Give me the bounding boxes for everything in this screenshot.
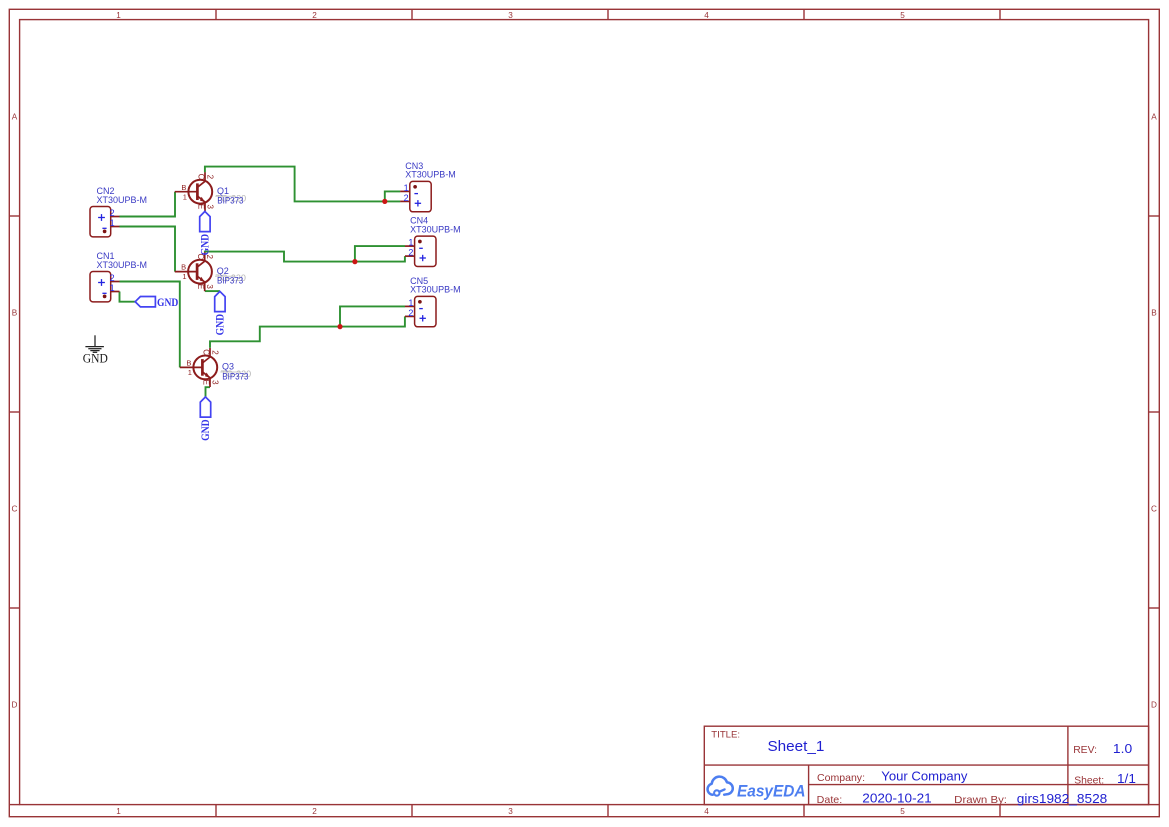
svg-text:XT30UPB-M: XT30UPB-M: [410, 285, 461, 295]
svg-text:5: 5: [900, 11, 905, 20]
svg-text:4: 4: [704, 807, 709, 816]
svg-text:Sheet_1: Sheet_1: [768, 739, 825, 755]
svg-text:4: 4: [704, 11, 709, 20]
svg-text:1: 1: [110, 218, 115, 228]
svg-text:1: 1: [182, 272, 186, 281]
svg-text:3: 3: [211, 380, 220, 385]
svg-text:3: 3: [508, 807, 513, 816]
title block: [704, 726, 1148, 804]
connector CN5 (XT30UPB-M): [405, 276, 461, 327]
svg-text:1: 1: [116, 807, 121, 816]
svg-text:2: 2: [312, 11, 317, 20]
svg-text:2: 2: [211, 350, 220, 355]
svg-text:1: 1: [408, 238, 413, 248]
EasyEDA logo: [708, 777, 806, 801]
svg-text:BIP373: BIP373: [222, 371, 248, 381]
svg-text:Drawn By:: Drawn By:: [954, 794, 1007, 806]
svg-text:1: 1: [116, 11, 121, 20]
svg-text:B: B: [186, 359, 191, 368]
svg-text:1: 1: [404, 183, 409, 193]
title block values: [768, 739, 1136, 806]
svg-text:2: 2: [404, 193, 409, 203]
svg-text:2: 2: [206, 175, 215, 180]
net flag GND (Q2 emitter): [215, 291, 227, 335]
title block labels: [711, 729, 1104, 806]
svg-text:3: 3: [508, 11, 513, 20]
connector CN4 (XT30UPB-M): [405, 216, 461, 267]
svg-text:GND: GND: [200, 234, 212, 256]
wire Q2 emitter to GND flag: [205, 290, 220, 292]
transistor Q1 (BIP373): [175, 172, 246, 211]
junction at CN3 branch: [382, 199, 387, 204]
connector CN2 (XT30UPB-M): [90, 186, 147, 237]
svg-text:D: D: [1151, 700, 1157, 709]
svg-text:1: 1: [183, 192, 187, 201]
svg-text:2: 2: [110, 208, 115, 218]
svg-text:1: 1: [188, 368, 192, 377]
svg-text:1/1: 1/1: [1117, 772, 1136, 786]
svg-text:GND: GND: [83, 352, 108, 366]
svg-text:B: B: [181, 263, 186, 272]
svg-text:EasyEDA: EasyEDA: [737, 783, 806, 801]
connector CN1 (XT30UPB-M): [90, 251, 147, 302]
svg-text:1: 1: [110, 283, 115, 293]
net flag GND (Q1 emitter): [200, 211, 212, 255]
svg-text:A: A: [1151, 112, 1157, 121]
svg-text:D: D: [12, 700, 18, 709]
svg-text:C: C: [12, 504, 18, 513]
svg-text:GND: GND: [215, 314, 227, 336]
wire Q3 emitter to GND flag: [206, 387, 211, 397]
svg-text:C: C: [197, 174, 206, 180]
svg-text:2020-10-21: 2020-10-21: [862, 790, 931, 805]
svg-text:1: 1: [408, 298, 413, 308]
svg-text:C: C: [1151, 504, 1157, 513]
junction at CN5 branch: [337, 324, 342, 329]
svg-text:B: B: [1151, 308, 1157, 317]
svg-text:XT30UPB-M: XT30UPB-M: [97, 260, 148, 270]
wire CN2 pin1 to Q2 base: [120, 227, 176, 272]
junction at CN4 branch: [352, 259, 357, 264]
svg-text:2: 2: [312, 807, 317, 816]
svg-text:A: A: [12, 112, 18, 121]
wire branch to CN4 pin1: [355, 246, 405, 262]
svg-text:E: E: [197, 204, 206, 209]
svg-text:E: E: [196, 284, 205, 289]
connector CN3 (XT30UPB-M): [400, 161, 456, 212]
svg-text:C: C: [202, 349, 211, 355]
svg-text:girs1982_8528: girs1982_8528: [1017, 791, 1108, 806]
svg-text:5: 5: [900, 807, 905, 816]
svg-text:XT30UPB-M: XT30UPB-M: [405, 170, 456, 180]
wire CN1 pin1 to GND flag: [120, 292, 136, 302]
svg-text:GND: GND: [157, 295, 179, 309]
svg-text:3: 3: [205, 284, 214, 289]
svg-text:2: 2: [408, 308, 413, 318]
svg-text:1.0: 1.0: [1113, 742, 1132, 756]
svg-text:TITLE:: TITLE:: [711, 729, 740, 740]
wire Q1 collector to CN3: [205, 167, 400, 202]
earth ground symbol: [85, 335, 104, 352]
svg-text:Date:: Date:: [817, 794, 843, 806]
svg-text:3: 3: [206, 204, 215, 209]
svg-text:XT30UPB-M: XT30UPB-M: [410, 224, 461, 234]
svg-text:2: 2: [408, 248, 413, 258]
transistor Q3 (BIP373): [180, 348, 251, 387]
wire Q3 collector to CN5: [210, 316, 405, 348]
net flag GND (CN1 pin1, horizontal): [135, 295, 178, 309]
svg-text:E: E: [202, 380, 211, 385]
wire CN1 pin2 to Q3 base: [120, 282, 180, 368]
net flag GND (Q3 emitter): [200, 397, 212, 441]
svg-text:XT30UPB-M: XT30UPB-M: [97, 195, 148, 205]
wire branch to CN3 pin1: [385, 191, 401, 201]
svg-text:GND: GND: [200, 419, 212, 441]
wire branch to CN5 pin1: [340, 306, 405, 326]
transistor Q2 (BIP373): [175, 252, 246, 291]
wire Q2 collector to CN4: [205, 252, 405, 262]
svg-text:2: 2: [110, 273, 115, 283]
svg-text:BIP373: BIP373: [217, 276, 243, 286]
svg-text:BIP373: BIP373: [217, 196, 243, 206]
svg-text:Your Company: Your Company: [881, 769, 968, 783]
svg-text:B: B: [12, 308, 18, 317]
svg-text:Company:: Company:: [817, 772, 865, 784]
svg-text:B: B: [181, 183, 186, 192]
svg-text:REV:: REV:: [1073, 744, 1097, 756]
wire CN2 pin2 to Q1 base: [120, 192, 176, 217]
svg-text:Sheet:: Sheet:: [1074, 775, 1104, 787]
